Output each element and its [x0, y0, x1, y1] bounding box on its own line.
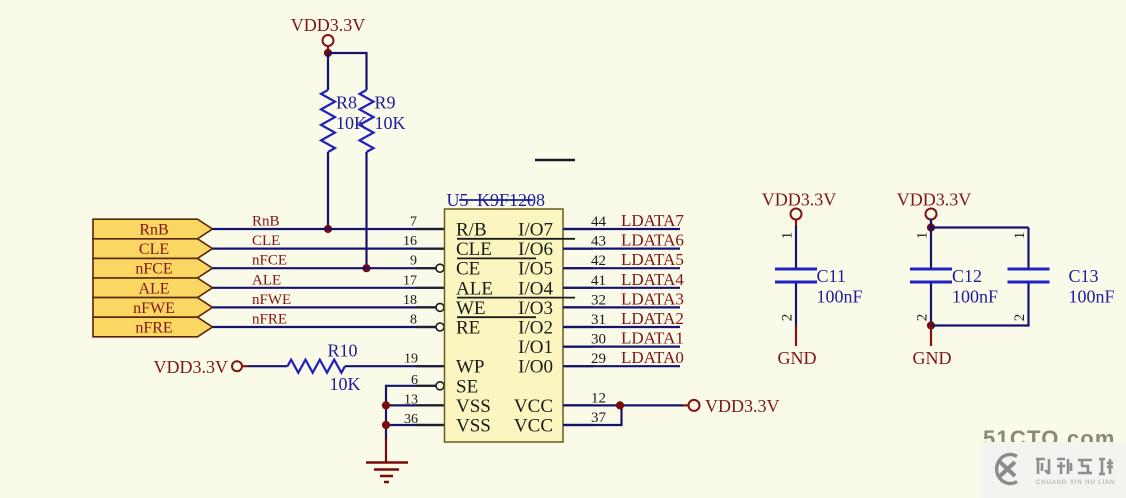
svg-text:30: 30 [591, 332, 606, 348]
svg-text:nFWE: nFWE [133, 300, 175, 317]
svg-text:RnB: RnB [139, 222, 168, 239]
svg-text:1: 1 [1012, 232, 1028, 240]
svg-text:I/O6: I/O6 [518, 239, 553, 260]
inversion bubble on pin SE [436, 382, 444, 390]
wire R10 to WP pin 19 [345, 365, 446, 367]
svg-text:100nF: 100nF [817, 287, 863, 307]
svg-text:42: 42 [591, 253, 606, 269]
wire C11 pin 2 to GND [795, 284, 797, 326]
junction R9 on nFCE wire [362, 264, 370, 272]
stray dash segment above IC [535, 159, 575, 162]
port RnB [93, 219, 213, 239]
watermark logo text 创新互联 [1036, 459, 1113, 474]
wire net ALE from port to IC pin 17 [213, 287, 447, 289]
overbar line (R/B row) [457, 238, 575, 240]
svg-text:CHUANG XIN HU LIAN: CHUANG XIN HU LIAN [1036, 480, 1115, 486]
svg-text:I/O2: I/O2 [518, 318, 553, 339]
pin stubs (left side) [416, 229, 446, 425]
svg-text:41: 41 [591, 273, 606, 289]
svg-text:CE: CE [456, 259, 480, 280]
wire net nFWE from port to IC pin 18 [213, 306, 437, 308]
svg-text:LDATA7: LDATA7 [621, 211, 684, 230]
overbar line (WE row) [457, 297, 575, 299]
svg-text:SE: SE [456, 376, 478, 397]
svg-text:nFCE: nFCE [252, 253, 287, 269]
svg-text:ALE: ALE [138, 280, 169, 297]
svg-text:I/O0: I/O0 [518, 357, 553, 378]
svg-text:43: 43 [591, 234, 606, 250]
wire I/O7 to LDATA7 [563, 228, 680, 230]
wire VSS pin 13 [386, 404, 446, 406]
capacitor C13 [1008, 268, 1050, 284]
inversion bubble on pin WE [436, 303, 444, 311]
svg-text:nFRE: nFRE [252, 312, 287, 328]
svg-text:VSS: VSS [456, 416, 491, 437]
svg-text:100nF: 100nF [1069, 287, 1115, 307]
svg-text:VDD3.3V: VDD3.3V [154, 357, 229, 377]
svg-text:R10: R10 [328, 341, 358, 361]
svg-text:16: 16 [403, 234, 417, 249]
svg-text:LDATA4: LDATA4 [621, 270, 684, 289]
wire I/O1 to LDATA1 [563, 346, 680, 348]
capacitor C11 [775, 268, 817, 284]
junction VSS pin 13 [382, 401, 390, 409]
wire C12 pin 2 to GND node [930, 284, 932, 326]
power port VDD3.3V (top, R8/R9 pull-ups) [291, 15, 366, 53]
inversion bubble on pin CE [436, 264, 444, 272]
svg-text:I/O7: I/O7 [518, 220, 553, 241]
watermark logo box [980, 442, 1126, 498]
power port GND (C11) [778, 326, 817, 369]
wire C13 top branch down [1027, 228, 1029, 268]
svg-text:GND: GND [778, 348, 817, 368]
port ALE [93, 278, 213, 298]
svg-text:I/O1: I/O1 [518, 337, 553, 358]
svg-text:VSS: VSS [456, 396, 491, 417]
svg-text:37: 37 [591, 410, 607, 426]
junction at VDD3.3V / R8 / R9 [324, 49, 332, 57]
svg-text:R/B: R/B [456, 220, 487, 241]
wire VCC pin 12 [563, 404, 683, 406]
svg-text:R9: R9 [375, 93, 396, 113]
wire I/O3 to LDATA3 [563, 306, 680, 308]
resistor R9 [360, 90, 374, 152]
wire VDD3.3V to R10 [248, 365, 288, 367]
junction R8 on RnB wire [324, 225, 332, 233]
pin stubs (right side) [563, 229, 593, 425]
wire I/O5 to LDATA5 [563, 267, 680, 269]
resistor R10 [288, 360, 346, 373]
svg-text:VCC: VCC [514, 396, 553, 417]
inversion bubble on pin RE [436, 323, 444, 331]
svg-text:LDATA5: LDATA5 [621, 250, 684, 269]
svg-text:9: 9 [410, 254, 417, 269]
wire SE pin 6 [386, 386, 436, 440]
port nFCE [93, 258, 213, 278]
svg-text:31: 31 [591, 312, 606, 328]
resistor R8 [321, 90, 335, 152]
wire I/O2 to LDATA2 [563, 326, 680, 328]
overbar line (CE) [457, 257, 536, 259]
junction VSS pin 36 [382, 421, 390, 429]
wire R8 down to RnB net [327, 152, 329, 229]
svg-text:44: 44 [591, 214, 607, 230]
svg-text:29: 29 [591, 351, 606, 367]
svg-text:19: 19 [404, 352, 418, 367]
power port GND (C12) [913, 326, 952, 369]
svg-text:nFCE: nFCE [135, 261, 172, 278]
svg-text:LDATA0: LDATA0 [621, 348, 684, 367]
svg-text:C11: C11 [817, 266, 846, 286]
wire VCC pin 37 [563, 405, 622, 425]
svg-text:CLE: CLE [139, 241, 169, 258]
wire VDD junction down to R8 [327, 53, 329, 90]
svg-text:WP: WP [456, 357, 485, 378]
svg-text:ALE: ALE [456, 278, 493, 299]
svg-text:RnB: RnB [252, 214, 280, 230]
wire net nFRE from port to IC pin 8 [213, 326, 437, 328]
svg-text:2: 2 [915, 314, 931, 322]
strike line through designator [459, 199, 533, 201]
svg-text:LDATA6: LDATA6 [621, 231, 684, 250]
wire net RnB from port to IC pin 7 [213, 228, 447, 230]
svg-text:LDATA1: LDATA1 [621, 329, 684, 348]
ground [366, 438, 408, 482]
junction C12 bottom node [927, 321, 935, 329]
svg-text:2: 2 [780, 314, 796, 322]
svg-text:WE: WE [456, 298, 486, 319]
wire R9 down to nFCE net [365, 152, 367, 268]
wire VDD node to C12 pin 1 [930, 219, 932, 268]
overbar line (RE) [457, 316, 536, 318]
svg-text:CLE: CLE [456, 239, 492, 260]
port nFRE [93, 317, 213, 337]
svg-text:nFWE: nFWE [252, 292, 291, 308]
op IC U5 K9F1208 body [445, 209, 564, 442]
junction C12 top node [927, 223, 935, 231]
svg-text:VCC: VCC [514, 416, 553, 437]
wire I/O0 to LDATA0 [563, 365, 680, 367]
svg-text:LDATA3: LDATA3 [621, 289, 684, 308]
watermark logo CX mark [997, 454, 1017, 483]
svg-text:10K: 10K [330, 374, 361, 394]
power port VDD3.3V (C12) [897, 190, 972, 227]
power port VDD3.3V (left, R10) [154, 357, 249, 377]
svg-text:nFRE: nFRE [135, 320, 172, 337]
svg-text:7: 7 [410, 215, 417, 230]
wire VDD to C11 pin 1 [795, 226, 797, 268]
wire I/O4 to LDATA4 [563, 287, 680, 289]
svg-text:RE: RE [456, 318, 480, 339]
port CLE [93, 239, 213, 259]
capacitor C12 [910, 268, 952, 284]
power port VDD3.3V (right of IC) [683, 396, 780, 416]
svg-text:R8: R8 [336, 93, 357, 113]
svg-text:18: 18 [403, 293, 417, 308]
svg-text:2: 2 [1012, 314, 1028, 322]
svg-text:C13: C13 [1069, 266, 1099, 286]
svg-text:10K: 10K [375, 113, 406, 133]
wire VSS pin 36 [386, 424, 446, 426]
port nFWE [93, 298, 213, 318]
wire net CLE from port to IC pin 16 [213, 248, 447, 250]
wire net nFCE from port to IC pin 9 [213, 267, 437, 269]
svg-text:32: 32 [591, 292, 606, 308]
svg-text:LDATA2: LDATA2 [621, 309, 684, 328]
svg-text:VDD3.3V: VDD3.3V [762, 190, 837, 210]
svg-text:I/O5: I/O5 [518, 259, 553, 280]
svg-text:I/O4: I/O4 [518, 278, 553, 299]
svg-text:13: 13 [404, 392, 418, 407]
svg-text:1: 1 [780, 232, 796, 240]
svg-text:GND: GND [913, 348, 952, 368]
wire VDD junction to R9 branch [328, 53, 367, 90]
junction VCC node [616, 401, 624, 409]
svg-text:C12: C12 [952, 266, 982, 286]
wire C12 node to C13 top [931, 226, 1029, 228]
svg-text:I/O3: I/O3 [518, 298, 553, 319]
svg-text:1: 1 [915, 232, 931, 240]
svg-text:17: 17 [403, 273, 417, 288]
wire C13 bottom branch [931, 284, 1029, 326]
svg-text:12: 12 [591, 390, 606, 406]
svg-text:100nF: 100nF [952, 287, 998, 307]
svg-text:8: 8 [410, 313, 417, 328]
svg-text:VDD3.3V: VDD3.3V [705, 396, 780, 416]
wire I/O6 to LDATA6 [563, 248, 680, 250]
svg-text:36: 36 [404, 412, 418, 427]
svg-text:CLE: CLE [252, 233, 280, 249]
power port VDD3.3V (C11) [762, 190, 837, 227]
svg-text:VDD3.3V: VDD3.3V [897, 190, 972, 210]
svg-text:VDD3.3V: VDD3.3V [291, 15, 366, 35]
svg-text:ALE: ALE [252, 272, 281, 288]
